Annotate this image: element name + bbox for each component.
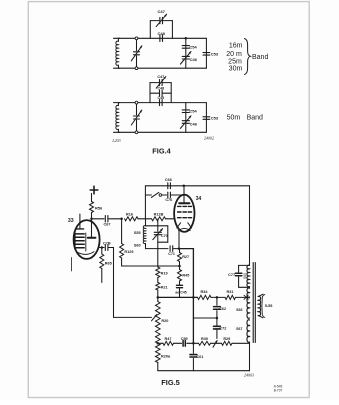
svg-text:C54: C54 (189, 109, 197, 114)
svg-text:R19: R19 (161, 272, 168, 276)
label R45 (182, 273, 189, 277)
svg-text:C71: C71 (168, 252, 175, 256)
capacitor C72 (214, 318, 221, 339)
resistor R31 (225, 295, 236, 299)
svg-text:C66: C66 (165, 178, 172, 182)
label C46 (190, 121, 198, 126)
resistor R19 (156, 267, 160, 278)
label C77 (228, 273, 235, 277)
resistor R20a (156, 343, 161, 362)
svg-text:C46: C46 (190, 121, 198, 126)
label C53 (211, 116, 219, 121)
label 16m (229, 43, 243, 50)
label 34 (196, 196, 202, 202)
tube 34 grid dashes (178, 206, 192, 217)
label R65 (105, 262, 112, 266)
resistor R27 (178, 249, 182, 266)
label C72 (219, 327, 226, 331)
wire cathode 34 down (178, 231, 180, 248)
label C49 (158, 96, 165, 100)
label R31 (227, 290, 234, 294)
svg-text:R27: R27 (182, 255, 189, 259)
wire r21 down (157, 290, 159, 302)
capacitor C53 (203, 117, 210, 120)
secondary bracket (262, 295, 265, 318)
svg-text:24003: 24003 (244, 373, 254, 378)
tube 34 plate (179, 186, 189, 203)
wire right rail low (249, 343, 251, 370)
label R47 (165, 337, 172, 341)
node c59 (192, 342, 195, 345)
potentiometer R20 (156, 302, 161, 344)
wire plate supply (91, 193, 93, 201)
tube 33 cathode (77, 233, 94, 254)
capacitor C48 (160, 90, 163, 96)
svg-text:R34: R34 (201, 290, 209, 294)
label Band 1 (252, 54, 268, 61)
label C48 (158, 87, 165, 91)
variable capacitor (main tuning) (131, 101, 142, 134)
svg-text:Band: Band (252, 54, 268, 61)
capacitor C75 (162, 192, 184, 198)
label R128 (154, 212, 164, 216)
capacitor C66 (168, 183, 171, 189)
wire C47 loop (150, 21, 172, 39)
wire bottom rail (118, 131, 206, 133)
tube 33 grid lead (76, 214, 83, 229)
wire R16 to corner (138, 218, 152, 220)
wire right rail (249, 186, 251, 266)
wire tank hang (145, 219, 147, 226)
wire branch C53 (205, 38, 207, 68)
svg-text:C7B: C7B (103, 241, 111, 245)
svg-text:C70: C70 (161, 234, 168, 238)
label Band 2 (247, 114, 263, 121)
resistor R16 (125, 217, 139, 221)
svg-text:C61: C61 (196, 355, 203, 359)
label C62 (219, 307, 226, 311)
svg-text:R56: R56 (95, 205, 103, 210)
wire r19-r21 (157, 278, 159, 283)
label 30m (229, 66, 243, 73)
wire C67 to node (108, 218, 122, 220)
resistor R34 (198, 295, 212, 299)
label R20 (161, 319, 168, 323)
node cathode 33 (101, 246, 104, 249)
node link (216, 317, 219, 320)
wire bias line (158, 296, 250, 298)
label R20a (161, 355, 171, 359)
node grid line (120, 218, 123, 221)
wire chain top (157, 249, 159, 267)
variable capacitor C70 (153, 219, 163, 248)
label R16 (126, 213, 133, 217)
label R129 (124, 250, 133, 254)
svg-text:R21: R21 (161, 285, 168, 289)
label C53 (211, 52, 219, 57)
wire output line (193, 342, 249, 344)
svg-text:S67: S67 (236, 327, 242, 331)
wire bottom rail (118, 67, 206, 69)
label C66 (165, 178, 172, 182)
label R29 (223, 337, 230, 341)
resistor R45 (178, 266, 182, 281)
label 24003 (244, 373, 254, 378)
capacitor C45 (177, 281, 183, 297)
label 20m (226, 51, 242, 58)
transformer primary S65/S66/S67 (247, 265, 250, 343)
svg-text:Band: Band (247, 114, 263, 121)
svg-text:R129: R129 (124, 250, 133, 254)
inductor L (antenna coil) (114, 103, 120, 133)
wire R128 to tube 34 grid (166, 218, 176, 220)
svg-text:C53: C53 (211, 116, 219, 121)
svg-text:33: 33 (68, 218, 74, 224)
capacitor C54 (182, 110, 189, 113)
tube 34 cathode (177, 223, 192, 231)
svg-text:R20a: R20a (161, 355, 171, 359)
node r1 (192, 296, 195, 299)
wire link (193, 317, 217, 319)
wire cathode out (99, 247, 104, 249)
wire branch C53 (205, 103, 207, 133)
svg-text:R45: R45 (182, 273, 189, 277)
wiper arrow into R20 (152, 315, 157, 321)
node plate junction (90, 218, 93, 221)
wire R65 stub (101, 269, 103, 283)
node R27-R45 (178, 265, 181, 268)
label S55 (134, 231, 141, 235)
title FIG.5 (161, 378, 179, 387)
node tap (157, 342, 160, 345)
node cathode 34 (178, 247, 181, 250)
resistor R129 (120, 219, 124, 266)
capacitor C53 (203, 53, 210, 56)
svg-text:L203: L203 (111, 138, 120, 143)
capacitor C61 (190, 343, 197, 370)
wire top rail (118, 37, 206, 39)
svg-text:S65: S65 (243, 273, 247, 279)
capacitor C59 (183, 341, 185, 347)
tube 33 grid dashes (75, 232, 84, 249)
label C75 (165, 198, 172, 202)
svg-text:S66: S66 (236, 308, 242, 312)
svg-text:16m: 16m (229, 43, 243, 50)
variable capacitor (main tuning) (131, 37, 142, 70)
label R34 (201, 290, 209, 294)
label C47 (158, 9, 166, 14)
svg-text:FIG.4: FIG.4 (152, 147, 171, 156)
svg-text:5-55: 5-55 (265, 304, 273, 308)
svg-text:50m: 50m (227, 114, 241, 121)
label C70 (161, 234, 168, 238)
svg-text:R12B: R12B (154, 212, 164, 216)
label L203 (111, 138, 120, 143)
label C71 (168, 252, 175, 256)
wire R129 to R45 node (122, 265, 180, 267)
label 25m (228, 58, 242, 65)
svg-text:R16: R16 (126, 213, 133, 217)
variable capacitor C47 (156, 77, 166, 89)
capacitor C67 (105, 216, 108, 222)
inductor S55/S60 tank coil (143, 226, 145, 249)
resistor R30 (199, 341, 211, 345)
capacitor C62 (214, 297, 221, 318)
svg-text:R65: R65 (105, 262, 112, 266)
node transformer tap (244, 295, 248, 299)
wiper arrow C72 (213, 340, 217, 347)
svg-text:C59: C59 (181, 337, 188, 341)
svg-text:R47: R47 (165, 337, 172, 341)
svg-text:C54: C54 (189, 44, 197, 49)
svg-text:C62: C62 (219, 307, 226, 311)
label S67 (236, 327, 242, 331)
label R56 (95, 205, 103, 210)
resistor R47 (163, 341, 174, 345)
node plate 34 rail (183, 185, 186, 188)
label R21 (161, 285, 168, 289)
svg-text:C47: C47 (158, 9, 166, 14)
capacitor C54 (182, 46, 189, 49)
label C48 (158, 31, 166, 36)
label 50m (227, 114, 241, 121)
tube V33 envelope (74, 220, 100, 259)
resistor R65 (100, 248, 104, 269)
variable capacitor C47 (156, 14, 166, 26)
svg-text:C72: C72 (219, 327, 226, 331)
transformer secondary S-55 (258, 294, 263, 318)
switch S (145, 192, 161, 197)
wire bottom rail (158, 370, 250, 372)
title FIG.4 (152, 147, 171, 156)
wire branch C54-C46 (185, 38, 187, 68)
svg-text:C48: C48 (158, 31, 166, 36)
wire branch C54-C46 (185, 103, 187, 133)
svg-text:C49: C49 (158, 96, 165, 100)
wire tank bottom (146, 248, 169, 250)
resistor R56 (90, 202, 94, 213)
resistor R29 (222, 341, 233, 345)
resistor R21 (156, 283, 160, 291)
wire ladder top rung (150, 82, 171, 84)
label C54 (189, 109, 197, 114)
svg-text:aerC45: aerC45 (175, 291, 186, 295)
svg-text:C53: C53 (211, 52, 219, 57)
wire C78 down to pot (114, 248, 152, 318)
svg-text:C48: C48 (158, 87, 165, 91)
capacitor C48 (160, 35, 163, 41)
svg-text:S60: S60 (134, 243, 141, 247)
capacitor C77 loop (235, 265, 249, 287)
tube 33 plate (88, 219, 96, 238)
wire ladder verticals (150, 83, 171, 103)
transformer core (253, 263, 255, 343)
label R27 (182, 255, 189, 259)
label C45 (175, 291, 186, 295)
capacitor C78 (105, 245, 108, 251)
capacitor C71 (170, 246, 179, 252)
label C67 (104, 222, 111, 226)
label C54 (189, 44, 197, 49)
tube 33 heater stub (71, 258, 73, 272)
wire junction to C67 (92, 218, 105, 220)
label C61 (196, 355, 203, 359)
svg-text:B-707: B-707 (274, 389, 283, 393)
node r2 (216, 296, 219, 299)
svg-text:C76: C76 (165, 198, 172, 202)
label S-55 (265, 304, 273, 308)
svg-text:R31: R31 (227, 290, 234, 294)
svg-text:30m: 30m (229, 66, 243, 73)
svg-text:R30: R30 (201, 337, 208, 341)
variable capacitor C46 (180, 116, 191, 129)
svg-text:C47: C47 (157, 75, 164, 79)
label C59 (181, 337, 188, 341)
brace band group (245, 39, 251, 75)
corner note (274, 385, 283, 393)
wire R56 to node (91, 213, 93, 220)
label S65 (243, 273, 247, 279)
wire ladder mid rung (150, 92, 171, 94)
svg-text:FIG.5: FIG.5 (161, 378, 179, 387)
label 24002 (204, 136, 214, 141)
label S66 (236, 308, 242, 312)
inductor L (antenna coil) (114, 38, 120, 68)
svg-text:20 m: 20 m (226, 51, 242, 58)
svg-text:C77: C77 (228, 273, 235, 277)
tube V34 envelope (174, 195, 194, 232)
label R30 (201, 337, 208, 341)
label C47 (157, 75, 164, 79)
power + terminal (90, 186, 98, 194)
label C46 (190, 57, 198, 62)
node chain (157, 296, 160, 299)
label C78 (103, 241, 111, 245)
label R19 (161, 272, 168, 276)
wire C78 to corner (108, 247, 113, 249)
wire tank top (146, 225, 168, 227)
resistor R128 (152, 217, 166, 221)
wire top rail (145, 185, 249, 187)
wire grid-line up (144, 186, 146, 219)
capacitor C49 (160, 100, 163, 106)
svg-text:R20: R20 (161, 319, 168, 323)
wire cathode L (179, 249, 193, 344)
svg-text:C67: C67 (104, 222, 111, 226)
wire tank right loop (158, 226, 168, 242)
svg-text:R29: R29 (223, 337, 230, 341)
label S60 (134, 243, 141, 247)
wire tap line (158, 342, 194, 344)
variable capacitor C46 (180, 52, 191, 65)
label 33 (68, 218, 74, 224)
svg-text:C46: C46 (190, 57, 198, 62)
svg-text:24002: 24002 (204, 136, 214, 141)
wire top rail (118, 102, 206, 104)
svg-text:25m: 25m (228, 58, 242, 65)
wire chain bottom (157, 363, 159, 371)
node j1 (185, 37, 188, 40)
svg-text:34: 34 (196, 196, 202, 202)
svg-text:S55: S55 (134, 231, 141, 235)
